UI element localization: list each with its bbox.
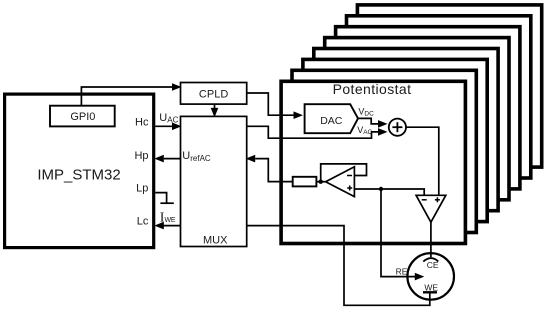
- electrochemical cell: [407, 253, 454, 300]
- wire DAC V_DC to summer: [358, 118, 379, 124]
- arrow into MUX top: [211, 108, 219, 118]
- svg-text:Lc: Lc: [137, 216, 149, 228]
- block CPLD: [181, 83, 247, 105]
- svg-text:GPI0: GPI0: [70, 111, 95, 123]
- arrow into MUX left: [172, 123, 182, 131]
- wire GPI0 to CPLD: [81, 87, 172, 105]
- potentiostat stacked channel 5: [325, 38, 509, 200]
- svg-text:DAC: DAC: [320, 115, 343, 127]
- arrow into DAC: [294, 111, 304, 119]
- svg-text:Potentiostat: Potentiostat: [333, 81, 412, 97]
- svg-text:CE: CE: [427, 260, 439, 270]
- wire MUX to Hp U_refAC: [164, 158, 181, 160]
- potentiostat stacked channel 4: [314, 49, 498, 211]
- potentiostat stacked channel 3: [303, 59, 487, 221]
- wire CPLD to DAC: [247, 93, 295, 115]
- arrow V_AC into summer: [378, 128, 388, 136]
- node dot RE tap: [379, 187, 383, 191]
- summer adder: [389, 119, 406, 136]
- wire MUX to V_AC summer: [247, 126, 379, 138]
- svg-text:CPLD: CPLD: [199, 88, 228, 100]
- WE electrode bar: [423, 291, 437, 293]
- wire Hc U_AC to MUX: [155, 125, 173, 127]
- wire resistor to MUX U_refAC return: [255, 159, 293, 182]
- arrow into IMP Hp: [154, 155, 164, 163]
- svg-text:IMP_STM32: IMP_STM32: [37, 167, 120, 184]
- block IMP_STM32: [5, 94, 154, 248]
- potentiostat stacked channel 6: [336, 27, 520, 189]
- wire RE to cell: [381, 189, 416, 277]
- Lp step symbol: [155, 193, 166, 204]
- CE electrode arc: [423, 258, 438, 262]
- svg-text:Hp: Hp: [134, 150, 148, 162]
- node dot A1 output: [319, 180, 323, 184]
- svg-text:WE: WE: [424, 282, 438, 292]
- svg-text:Lp: Lp: [136, 183, 148, 195]
- arrow into IMP Lc: [154, 222, 164, 230]
- arrow RE into cell: [415, 273, 425, 281]
- wire CPLD to MUX: [214, 104, 216, 109]
- svg-text:Hc: Hc: [135, 117, 149, 129]
- op-amp A1: [326, 167, 355, 197]
- svg-text:MUX: MUX: [203, 235, 228, 247]
- wire resistor to op-amp A1 output: [316, 181, 325, 183]
- arrow into CPLD: [172, 83, 182, 91]
- DAC symbol: [305, 104, 358, 133]
- wire summer to op-amp A2 plus input: [406, 127, 439, 195]
- op-amp A1 feedback wire: [321, 164, 367, 182]
- block GPI0: [50, 106, 115, 127]
- potentiostat stacked channel 7: [347, 16, 531, 178]
- svg-text:RE: RE: [396, 266, 408, 276]
- wire A2 output to cell CE: [430, 222, 432, 257]
- block MUX: [181, 116, 247, 246]
- potentiostat stacked channel 2: [292, 70, 476, 232]
- potentiostat stacked channel 8: [357, 5, 541, 167]
- resistor R: [293, 177, 317, 187]
- arrow V_DC into summer: [378, 120, 388, 128]
- op-amp A2: [416, 195, 446, 222]
- arrow into MUX right: [246, 155, 256, 163]
- wire MUX to Lc I_WE: [163, 225, 181, 227]
- potentiostat front box: [281, 81, 465, 243]
- wire cell WE to MUX I_WE: [247, 226, 430, 306]
- wire A1 plus input to A2 minus input: [354, 189, 424, 195]
